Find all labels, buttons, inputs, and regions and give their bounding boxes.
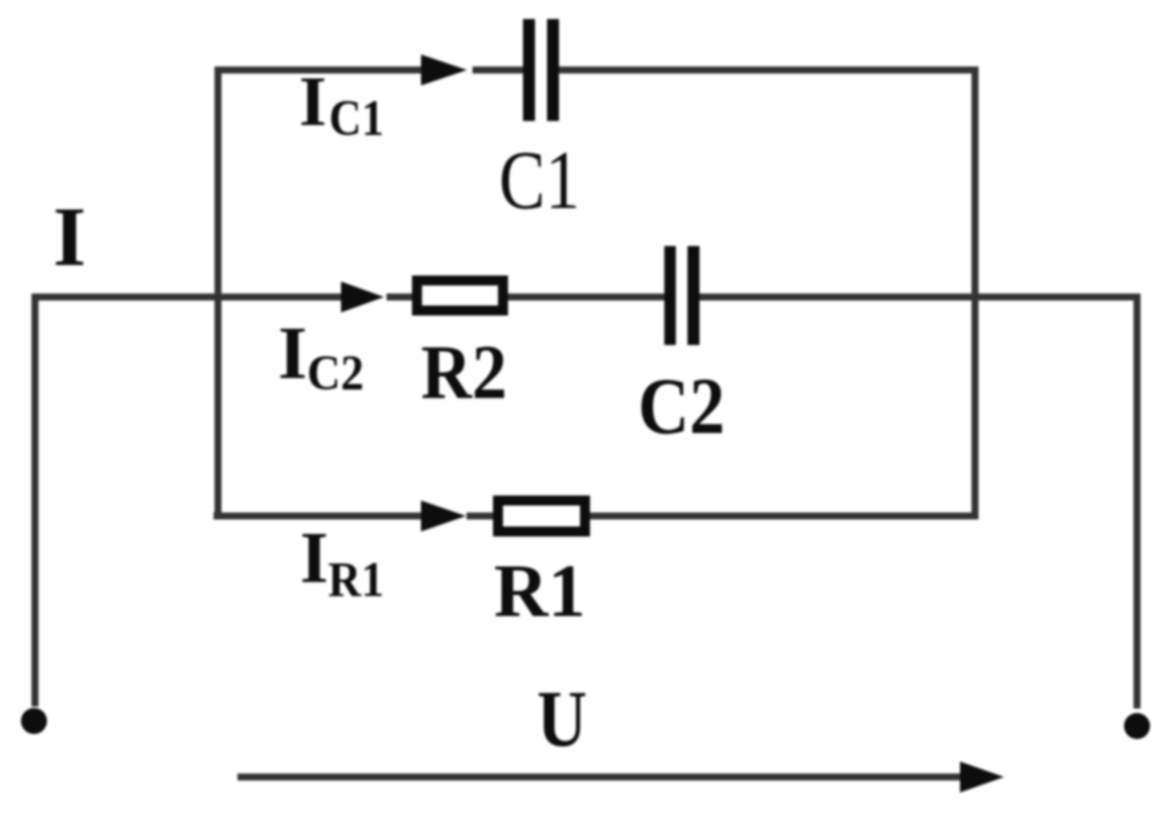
- wire U reference arrow shaft: [241, 774, 967, 781]
- wire inner left rail: [215, 70, 222, 516]
- wire middle branch left segment: [35, 294, 368, 301]
- wire middle branch right segment: [701, 294, 1137, 301]
- wire inner right rail: [972, 70, 979, 516]
- wire outer right rail: [1134, 297, 1141, 705]
- svg-text:U: U: [537, 676, 587, 764]
- svg-text:R1: R1: [494, 550, 586, 633]
- capacitor C1 right plate: [547, 19, 559, 121]
- arrow head of U reference arrow: [960, 762, 1004, 793]
- capacitor C1 left plate: [523, 19, 535, 121]
- arrow current I_R1 on bottom branch: [421, 501, 466, 532]
- svg-text:I: I: [278, 312, 307, 395]
- wire middle branch stub before R2: [390, 294, 414, 301]
- resistor R2 body: [417, 281, 503, 311]
- capacitor C2 left plate: [664, 246, 676, 345]
- svg-text:R1: R1: [328, 551, 384, 607]
- wire top branch right segment: [559, 67, 975, 74]
- node terminal dot bottom-right: [1124, 713, 1150, 739]
- resistor R1 body: [498, 501, 585, 532]
- wire bottom branch right segment: [588, 513, 975, 520]
- svg-text:R2: R2: [421, 329, 507, 415]
- wire top branch stub before C1: [476, 67, 523, 74]
- svg-text:C2: C2: [307, 344, 364, 400]
- svg-text:C1: C1: [499, 134, 580, 227]
- arrow current I_C2 on middle branch: [341, 282, 384, 313]
- svg-text:I: I: [299, 63, 327, 141]
- svg-text:C2: C2: [638, 363, 725, 451]
- capacitor C2 right plate: [688, 246, 700, 345]
- node terminal dot bottom-left: [21, 708, 47, 734]
- wire outer left rail: [32, 297, 39, 703]
- svg-text:I: I: [53, 190, 86, 284]
- svg-text:I: I: [300, 517, 328, 598]
- svg-text:C1: C1: [329, 91, 384, 147]
- wire middle branch R2-to-C2 segment: [506, 294, 664, 301]
- wire top branch left segment: [218, 67, 447, 74]
- arrow current I_C1 on top branch: [421, 55, 467, 86]
- wire bottom branch left segment: [217, 513, 448, 520]
- wire bottom branch stub before R1: [470, 513, 495, 520]
